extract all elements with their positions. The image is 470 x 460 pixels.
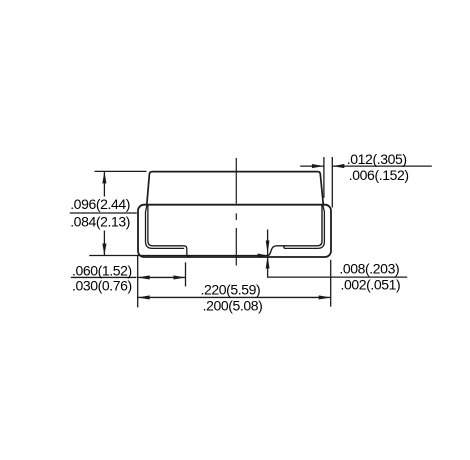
top extension line: [95, 170, 147, 172]
arrow down (dim .008 upper): [266, 241, 270, 254]
arrow right (seating line end): [258, 254, 268, 258]
arrow left (dim .220): [138, 295, 150, 299]
arrow right (dim .060): [174, 275, 186, 279]
top cap (molded body top): [147, 172, 323, 205]
extension line top cap edge (x=323.9): [323, 157, 325, 198]
extension line left (x=137.7): [137, 255, 139, 308]
fraction bar .096/.084: [70, 212, 137, 214]
svg-text:.012(.305): .012(.305): [347, 151, 407, 167]
left terminal lead outer surface: [146, 205, 185, 248]
svg-text:.060(1.52): .060(1.52): [72, 263, 132, 279]
svg-text:.096(2.44): .096(2.44): [70, 196, 130, 212]
fraction bar .060/.030: [71, 276, 137, 278]
arrow left (dim .060): [138, 275, 150, 279]
dimension line .012/.006 with fraction bar: [300, 165, 432, 167]
left terminal lead inner surface: [148, 205, 184, 246]
svg-text:.220(5.59): .220(5.59): [201, 282, 261, 298]
extension line lead end (x=185.5): [185, 262, 187, 286]
extension line right (x=330.7): [330, 260, 332, 307]
svg-text:.008(.203): .008(.203): [339, 261, 399, 277]
dimension line .096/.084 (vertical, left): [103, 171, 105, 255]
dimension line .060/.030: [138, 276, 186, 278]
arrow right (dim .220): [319, 295, 331, 299]
svg-text:.002(.051): .002(.051): [341, 277, 401, 293]
leader line .008/.002: [268, 230, 408, 278]
svg-text:.006(.152): .006(.152): [349, 167, 409, 183]
arrow up (dim .008 lower): [266, 256, 270, 269]
right terminal lead inner surface: [268, 205, 322, 255]
right terminal lead outer surface: [284, 205, 325, 248]
arrow right (dim .012 left side): [312, 164, 324, 168]
arrow up (dim .096 top): [102, 171, 106, 183]
svg-text:.084(2.13): .084(2.13): [70, 214, 130, 230]
centerline (dash-dot): [235, 158, 237, 266]
left lead end step: [184, 246, 191, 257]
svg-text:.200(5.08): .200(5.08): [203, 297, 263, 313]
svg-text:.030(0.76): .030(0.76): [72, 278, 132, 294]
dimension line .220/.200: [138, 296, 331, 298]
extension line body edge (x=332.3): [331, 157, 333, 208]
body outline (molded case, side view): [138, 205, 331, 257]
seating plane extension line: [89, 255, 267, 257]
arrow left (dim .012 right side): [332, 164, 344, 168]
arrow down (dim .084 bottom): [102, 244, 106, 256]
